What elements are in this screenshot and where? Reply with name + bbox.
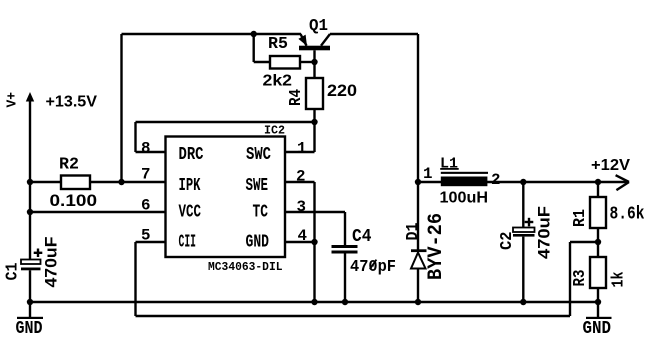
- wire pin2 stub: [285, 181, 315, 183]
- wire C2 bottom: [522, 237, 524, 302]
- svg-text:C4: C4: [352, 227, 372, 247]
- wire pin5 stub: [136, 241, 166, 243]
- node pin2 / pin4: [311, 239, 317, 245]
- wire left rail top: [29, 100, 31, 182]
- svg-text:R5: R5: [268, 35, 288, 54]
- svg-text:GND: GND: [16, 319, 43, 337]
- svg-text:1: 1: [423, 165, 433, 183]
- svg-text:7: 7: [141, 166, 151, 184]
- svg-text:TC: TC: [253, 202, 269, 222]
- wire R5 right: [300, 61, 315, 63]
- node C2 / ground: [520, 299, 526, 305]
- svg-text:220: 220: [327, 81, 357, 100]
- transistor Q1: [298, 34, 330, 78]
- svg-text:BYV-26: BYV-26: [425, 213, 448, 280]
- wire R5 left: [254, 61, 270, 63]
- wire C2 top: [522, 182, 524, 228]
- wire D1 bottom: [417, 269, 419, 303]
- node R1 / output: [595, 179, 601, 185]
- wire collector top: [330, 33, 418, 35]
- svg-text:+12V: +12V: [591, 157, 630, 174]
- wire R4 bottom: [313, 109, 315, 122]
- node R3 / ground: [595, 299, 601, 305]
- node +12V arrow: [616, 175, 629, 190]
- wire L1 right: [487, 181, 523, 183]
- node rail / ground: [27, 299, 33, 305]
- wire vertical x122 to top: [120, 34, 122, 182]
- resistor R5: [270, 56, 300, 69]
- wire pin8 vertical: [134, 122, 136, 152]
- svg-text:0.100: 0.100: [50, 191, 98, 210]
- wire top rail: [122, 33, 302, 35]
- node rail / R2: [27, 179, 33, 185]
- wire feedback vertical: [569, 242, 571, 316]
- wire pin8 stub: [136, 151, 166, 153]
- node C2 / output: [520, 179, 526, 185]
- svg-text:470uF: 470uF: [535, 206, 554, 259]
- node R2 / pin7: [118, 179, 124, 185]
- wire feedback to divider: [570, 241, 598, 243]
- op-amp U1 : IC2 MC34063 box: [166, 137, 286, 258]
- wire R2 right to pin 7: [90, 181, 166, 183]
- svg-text:+13.5V: +13.5V: [46, 94, 98, 111]
- svg-text:GND: GND: [583, 319, 612, 337]
- wire pin6 VCC: [30, 211, 166, 213]
- wire R2 left: [30, 181, 61, 183]
- svg-text:R4: R4: [287, 89, 306, 106]
- svg-text:MC34063-DIL: MC34063-DIL: [208, 260, 283, 274]
- wire R1 top: [597, 182, 599, 197]
- svg-text:DRC: DRC: [179, 145, 204, 165]
- diode D1: [411, 249, 427, 268]
- wire R5 feed vertical: [252, 34, 254, 62]
- wire D1 top: [417, 182, 419, 250]
- wire DRC-SWC rail: [136, 121, 315, 123]
- resistor R2: [61, 176, 90, 190]
- node V+ power arrow: [26, 92, 34, 102]
- wire R1-R3 middle: [597, 228, 599, 257]
- resistor R4: [306, 78, 323, 109]
- wire collector vertical: [417, 34, 419, 182]
- svg-text:C2: C2: [498, 232, 517, 251]
- capacitor C2: [513, 218, 535, 237]
- svg-text:100uH: 100uH: [440, 190, 489, 207]
- wire pin5 vertical: [134, 242, 136, 316]
- wire ground rail: [30, 301, 598, 303]
- svg-text:R2: R2: [59, 156, 79, 175]
- svg-text:L1: L1: [440, 156, 458, 173]
- wire output row: [523, 181, 629, 183]
- svg-text:CII: CII: [179, 233, 197, 253]
- node D1 / L1: [415, 179, 421, 185]
- wire pin2-pin4-ground vertical: [313, 182, 315, 302]
- capacitor C4: [332, 245, 358, 254]
- node D1 / ground: [415, 299, 421, 305]
- svg-text:VCC: VCC: [179, 202, 202, 222]
- svg-text:1k: 1k: [610, 272, 629, 288]
- node C4 / ground: [342, 299, 348, 305]
- node top rail / R5: [251, 31, 257, 37]
- svg-text:SWC: SWC: [246, 145, 271, 165]
- node Q1 base / R5: [311, 59, 317, 65]
- svg-text:D1: D1: [404, 223, 423, 241]
- svg-text:3: 3: [297, 198, 307, 216]
- svg-text:1: 1: [297, 140, 307, 158]
- wire pin3 down to C4: [344, 212, 346, 245]
- inductor L1: [440, 168, 488, 186]
- svg-text:SWE: SWE: [246, 176, 269, 196]
- svg-text:IC2: IC2: [264, 124, 285, 138]
- svg-text:2k2: 2k2: [263, 73, 293, 90]
- svg-text:R1: R1: [571, 209, 590, 227]
- svg-text:8.6k: 8.6k: [610, 205, 645, 225]
- svg-text:470pF: 470pF: [350, 258, 396, 277]
- svg-text:R3: R3: [571, 270, 590, 287]
- ground (right): [583, 302, 612, 337]
- wire L1 left: [418, 181, 441, 183]
- ground (left): [16, 302, 44, 337]
- wire pin3 stub: [285, 211, 345, 213]
- wire left rail mid: [29, 182, 31, 260]
- wire pin1 vertical: [313, 122, 315, 152]
- node pin2-4 / ground: [311, 299, 317, 305]
- capacitor C1: [21, 249, 42, 271]
- resistor R3: [590, 257, 606, 288]
- node R1 / R3: [595, 239, 601, 245]
- wire pin4 stub: [285, 241, 315, 243]
- svg-text:GND: GND: [246, 233, 270, 253]
- wire C4 bottom: [344, 254, 346, 303]
- svg-text:2: 2: [491, 171, 501, 189]
- svg-text:V+: V+: [5, 92, 21, 108]
- node R4 / DRC-SWC: [311, 119, 317, 125]
- svg-text:8: 8: [141, 140, 151, 158]
- svg-text:Q1: Q1: [309, 17, 328, 36]
- wire left rail bottom: [29, 270, 31, 302]
- node rail / VCC: [27, 209, 33, 215]
- wire pin1 stub: [285, 151, 315, 153]
- svg-text:470uF: 470uF: [42, 237, 61, 288]
- wire R3 bottom: [597, 288, 599, 302]
- svg-text:IPK: IPK: [179, 176, 201, 196]
- svg-text:C1: C1: [4, 263, 23, 281]
- wire feedback bottom: [136, 315, 571, 317]
- resistor R1: [590, 197, 606, 228]
